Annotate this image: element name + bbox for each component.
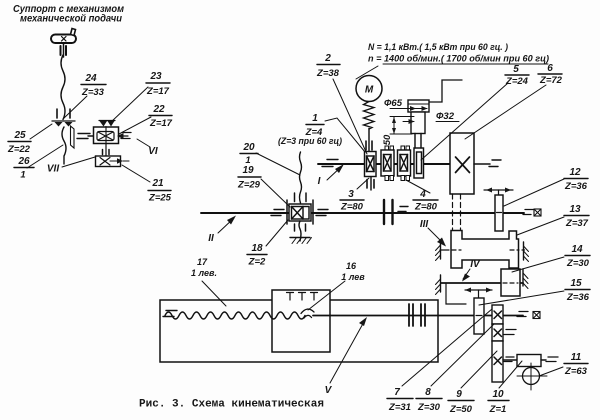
shaft V end marks — [519, 311, 528, 313]
svg-text:1 лев.: 1 лев. — [191, 268, 217, 278]
bearing wall 14 right — [522, 269, 524, 286]
gear 2 on shaft I — [385, 146, 389, 151]
arrow IV — [463, 269, 470, 279]
svg-text:Рис. 3. Схема кинематическая: Рис. 3. Схема кинематическая — [139, 399, 324, 411]
svg-text:17: 17 — [197, 257, 208, 267]
break marks right of stack — [506, 329, 516, 331]
svg-text:Z=24: Z=24 — [505, 76, 529, 87]
stub below gear 1 — [370, 177, 372, 190]
gear 14 — [501, 269, 520, 296]
svg-text:Z=80: Z=80 — [340, 202, 364, 213]
arrow III — [428, 228, 444, 244]
svg-text:26: 26 — [17, 156, 30, 167]
svg-text:Z=33: Z=33 — [81, 87, 105, 98]
svg-text:Ф65: Ф65 — [384, 98, 403, 109]
shaft I break marks left — [327, 159, 338, 161]
svg-text:50: 50 — [382, 134, 393, 145]
svg-text:Z=37: Z=37 — [565, 218, 589, 229]
bearing wall III left — [440, 241, 442, 259]
motor note underline — [383, 63, 548, 65]
svg-text:23: 23 — [149, 71, 162, 82]
bearing ticks on flexible shaft — [56, 109, 58, 118]
pulley bracket — [429, 80, 462, 102]
svg-text:Z=2: Z=2 — [248, 257, 266, 268]
breaks left of cluster — [274, 209, 284, 211]
gear block 13 on shaft III — [451, 231, 519, 269]
svg-text:13: 13 — [569, 204, 581, 215]
bevel pair on gearbox — [99, 120, 115, 122]
svg-text:Z=17: Z=17 — [146, 86, 170, 97]
svg-text:VI: VI — [148, 146, 158, 157]
svg-text:11: 11 — [571, 352, 582, 363]
screw break marks left — [166, 310, 177, 312]
breaks right of cluster — [318, 209, 328, 211]
gear 1 on shaft I — [365, 152, 377, 177]
svg-text:II: II — [208, 233, 214, 244]
shaft I right end — [474, 163, 490, 165]
svg-text:22: 22 — [152, 104, 165, 115]
svg-text:24: 24 — [84, 73, 97, 84]
halfnut arcs — [301, 309, 314, 313]
shaft stub above gear 1 — [368, 129, 370, 154]
stepped pulley — [408, 100, 429, 112]
gearbox VII upper — [94, 127, 119, 144]
lead screw wavy — [165, 312, 305, 319]
shaft III centerline — [440, 249, 526, 251]
svg-text:19: 19 — [242, 165, 254, 176]
worm shaft wavy lower — [299, 221, 301, 241]
svg-text:8: 8 — [425, 387, 431, 398]
halfnut box 16 — [272, 290, 330, 352]
big apron box — [160, 300, 438, 362]
handle capsule — [51, 35, 76, 44]
svg-text:14: 14 — [571, 244, 583, 255]
shaft I — [318, 163, 450, 165]
gear 15 — [474, 298, 484, 334]
svg-text:16: 16 — [346, 261, 357, 271]
coupling on shaft II — [383, 200, 385, 224]
svg-text:(Z=3 при 60 гц): (Z=3 при 60 гц) — [278, 136, 342, 147]
svg-text:12: 12 — [569, 167, 581, 178]
svg-text:М: М — [365, 85, 374, 96]
svg-text:1 лев: 1 лев — [341, 272, 365, 282]
gear 18-19-20 cluster — [286, 200, 288, 224]
comb marks — [287, 293, 318, 301]
worm 10 — [503, 359, 517, 361]
svg-text:5: 5 — [513, 64, 519, 75]
arrow V — [330, 320, 365, 383]
svg-text:3: 3 — [348, 189, 354, 200]
arrow I — [327, 166, 342, 180]
svg-text:Z=25: Z=25 — [148, 193, 172, 204]
svg-text:Z=63: Z=63 — [564, 366, 588, 377]
svg-text:Z=80: Z=80 — [414, 202, 438, 213]
svg-text:Z=72: Z=72 — [539, 75, 563, 86]
svg-text:18: 18 — [251, 243, 263, 254]
gear 3 on shaft I — [401, 146, 405, 151]
svg-text:10: 10 — [492, 389, 504, 400]
svg-text:15: 15 — [570, 278, 582, 289]
svg-text:n = 1400 об/мин.( 1700 об/мин: n = 1400 об/мин.( 1700 об/мин при 60 гц) — [368, 54, 549, 65]
lower box — [96, 156, 121, 167]
svg-text:Z=38: Z=38 — [316, 68, 340, 79]
svg-text:Z=36: Z=36 — [566, 292, 590, 303]
svg-text:2: 2 — [324, 53, 331, 64]
bearing wall III right — [523, 242, 525, 260]
svg-text:21: 21 — [151, 178, 164, 189]
Ф65 arrow line — [390, 108, 427, 110]
svg-text:Z=31: Z=31 — [388, 402, 411, 413]
svg-text:Z=22: Z=22 — [7, 144, 31, 155]
belt zigzag from motor — [364, 102, 375, 130]
arrow II — [218, 218, 234, 233]
svg-text:Z=1: Z=1 — [489, 404, 507, 415]
bearing wall IV left — [440, 275, 442, 292]
svg-text:Z=30: Z=30 — [566, 258, 590, 269]
svg-text:9: 9 — [456, 389, 462, 400]
shifter arrow gear 15 — [465, 289, 492, 291]
arrow into gearbox from VI — [117, 133, 124, 139]
stub to lower box — [105, 144, 107, 157]
shaft IV — [441, 282, 523, 284]
dashed links from spindle box — [452, 194, 454, 231]
svg-text:Z=29: Z=29 — [237, 180, 261, 191]
svg-text:I: I — [318, 176, 321, 187]
svg-text:1: 1 — [312, 113, 318, 124]
bevel wings — [52, 120, 75, 122]
svg-text:25: 25 — [13, 130, 26, 141]
gear 5 (pulley hub) on shaft I — [414, 148, 424, 178]
svg-text:20: 20 — [242, 142, 255, 153]
bearing ticks above cluster — [294, 193, 296, 202]
bearing ticks above gear 1 — [365, 141, 367, 150]
ticks below handle — [60, 46, 62, 55]
svg-text:1: 1 — [20, 170, 25, 181]
flexible shaft lower — [62, 127, 66, 164]
svg-text:Z=50: Z=50 — [449, 404, 473, 415]
worm wheel 11 — [523, 368, 540, 385]
shaft II — [201, 212, 524, 214]
handle nub — [71, 29, 76, 36]
pennant — [71, 126, 75, 148]
gear 12 — [484, 189, 513, 191]
svg-text:7: 7 — [394, 387, 400, 398]
svg-text:Z=30: Z=30 — [417, 402, 441, 413]
svg-text:IV: IV — [470, 259, 481, 270]
motor leader — [356, 66, 378, 79]
svg-text:Ф32: Ф32 — [436, 111, 455, 122]
svg-text:VII: VII — [47, 164, 59, 175]
worm shaft wavy upper — [300, 152, 302, 203]
svg-text:Z=17: Z=17 — [149, 118, 173, 129]
coupling on shaft V — [408, 304, 410, 326]
ground under worm — [290, 237, 310, 239]
dimension 50 — [390, 116, 414, 118]
shaft V — [313, 315, 474, 317]
shaft VI stub — [78, 133, 90, 135]
svg-text:III: III — [420, 219, 429, 230]
motor M — [356, 76, 382, 102]
spindle box X — [450, 133, 474, 194]
vertical gear stack 7-8-9 — [492, 305, 503, 324]
svg-text:V: V — [325, 385, 333, 396]
shaft II right end — [525, 209, 533, 211]
support hook — [446, 284, 466, 304]
svg-text:механической подачи: механической подачи — [20, 14, 122, 25]
svg-text:6: 6 — [547, 63, 553, 74]
svg-text:N = 1,1 кВт.( 1,5 кВт при 60: N = 1,1 кВт.( 1,5 кВт при 60 гц. ) — [368, 42, 508, 53]
svg-text:Z=36: Z=36 — [564, 181, 588, 192]
flexible shaft upper — [61, 55, 65, 120]
